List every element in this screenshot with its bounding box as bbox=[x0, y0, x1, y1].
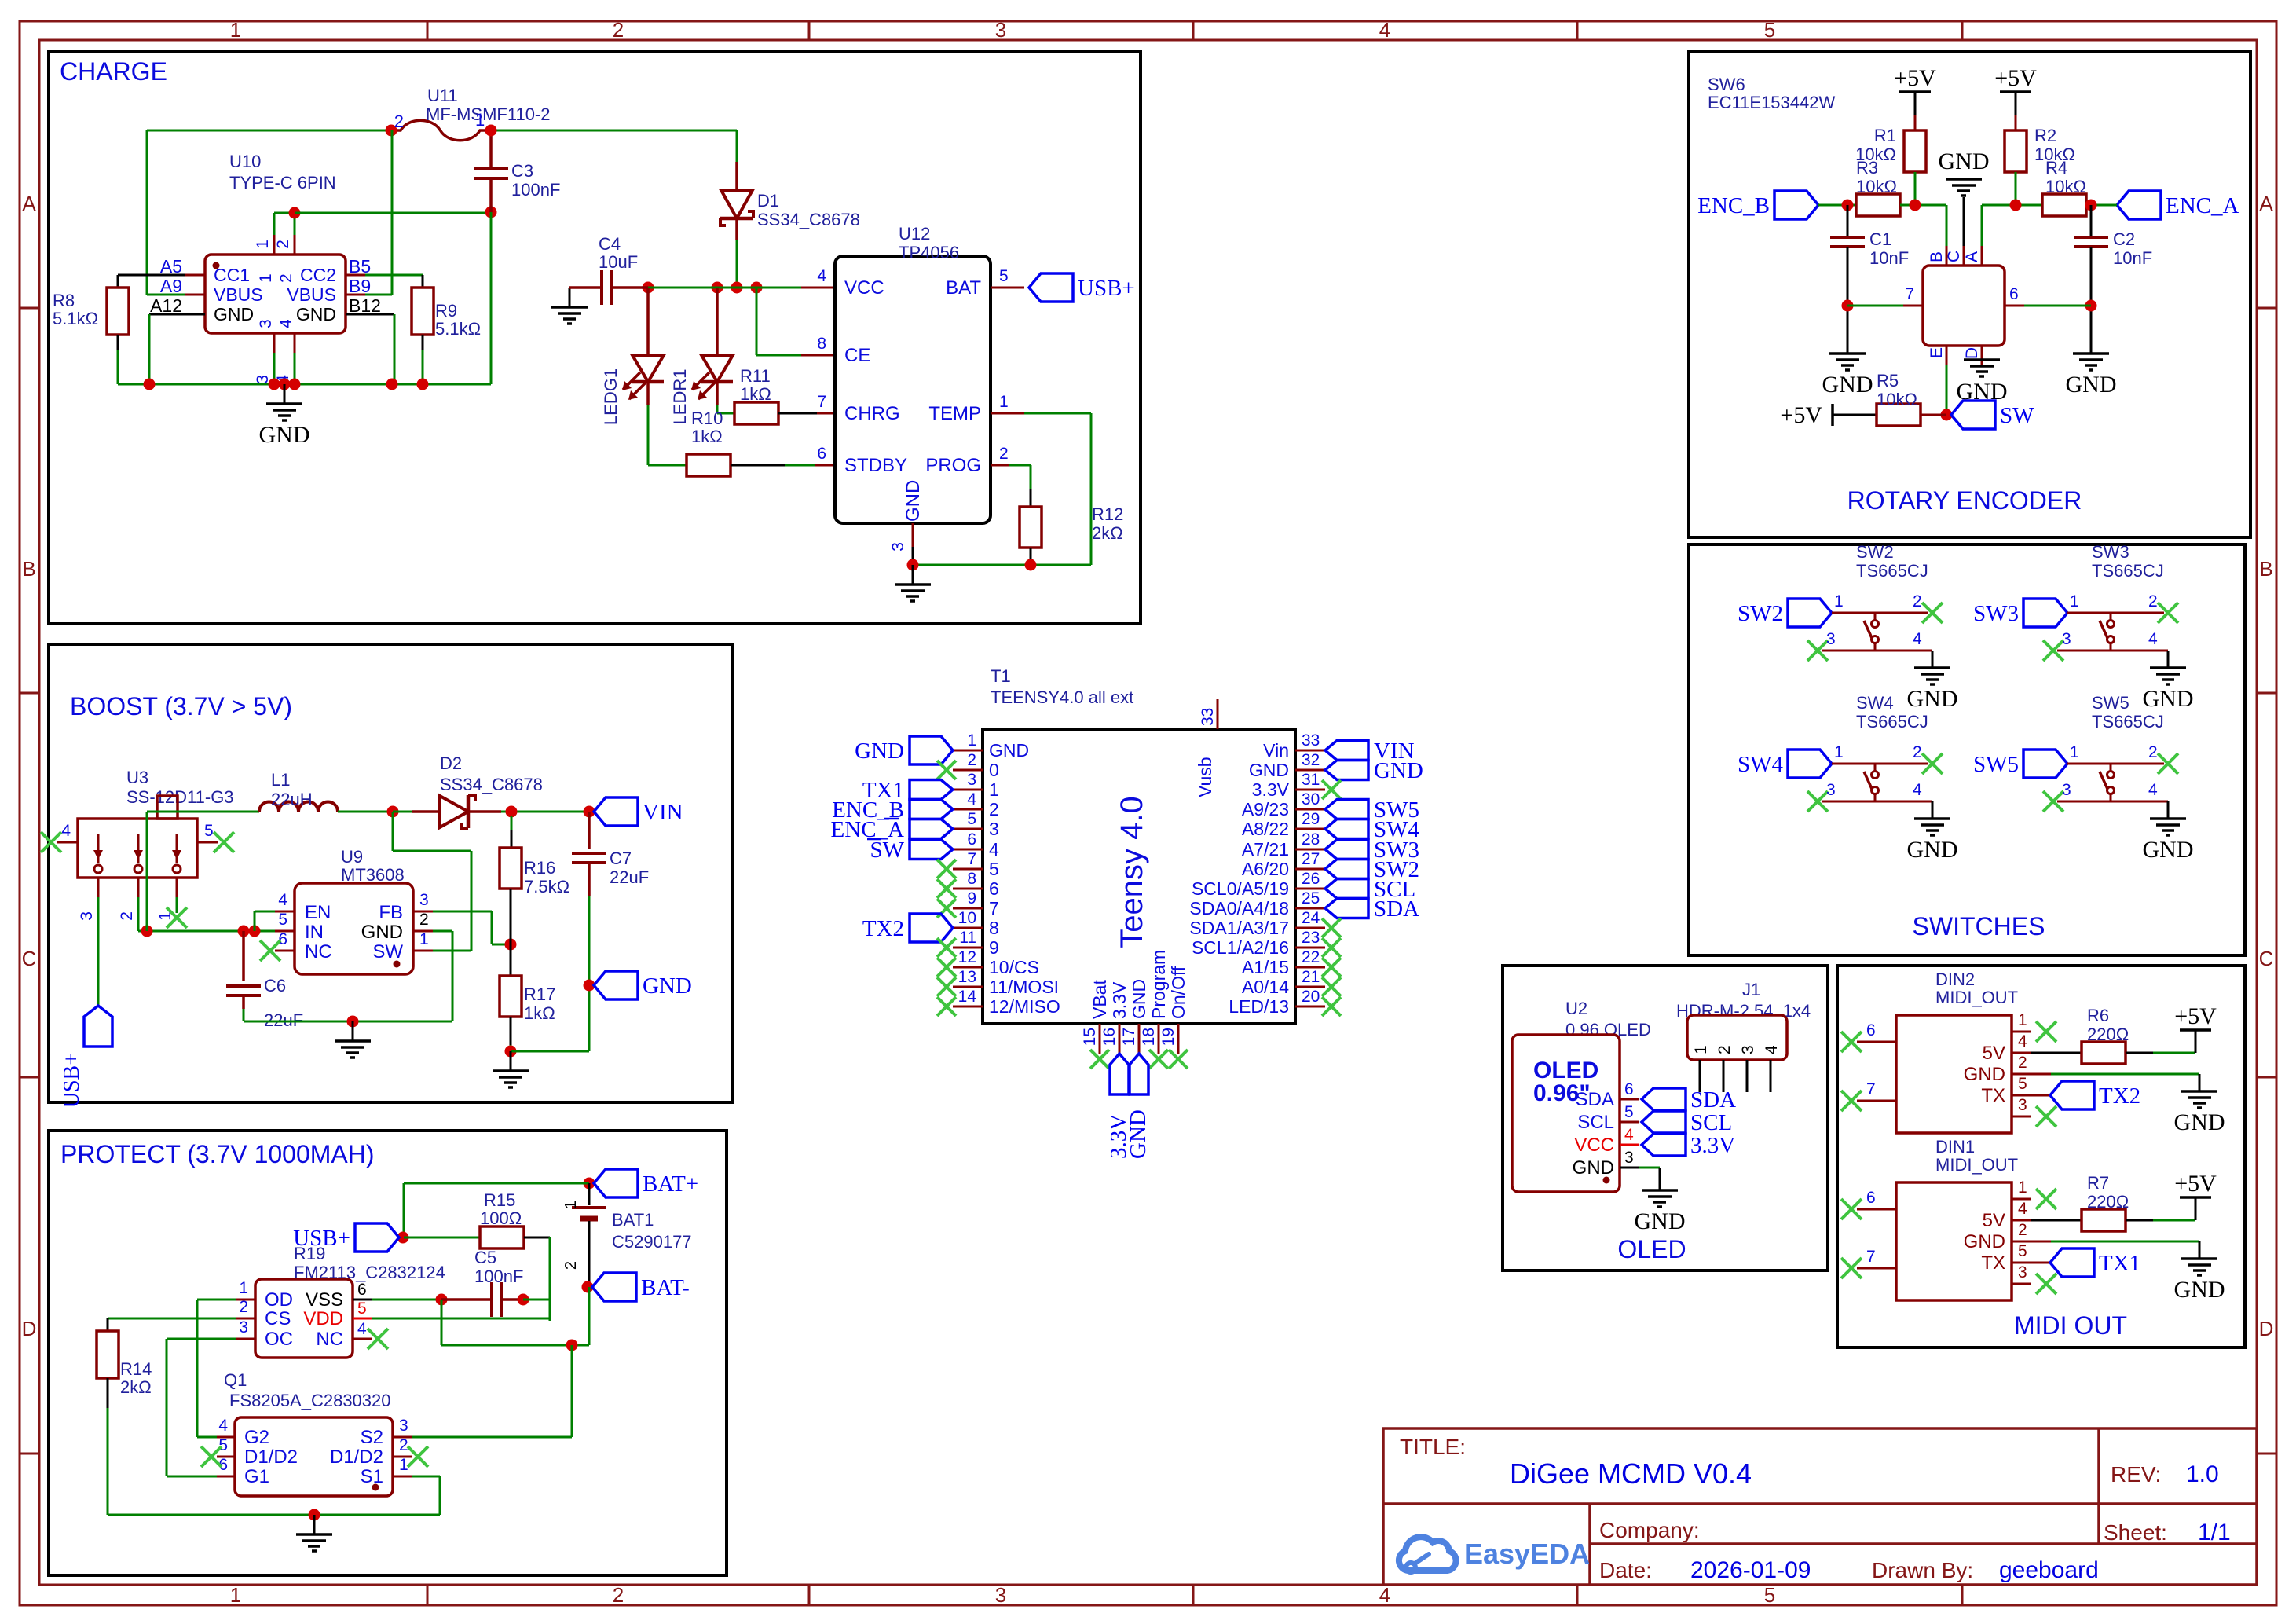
svg-text:SW4: SW4 bbox=[1856, 693, 1894, 713]
svg-text:Drawn By:: Drawn By: bbox=[1872, 1558, 1973, 1582]
svg-text:CHRG: CHRG bbox=[844, 403, 900, 424]
svg-text:SDA: SDA bbox=[1690, 1087, 1736, 1113]
svg-text:SW: SW bbox=[870, 838, 905, 863]
svg-text:VBat: VBat bbox=[1089, 980, 1110, 1019]
svg-text:3: 3 bbox=[1826, 630, 1836, 648]
svg-text:USB+: USB+ bbox=[1078, 276, 1135, 301]
svg-text:5V: 5V bbox=[1983, 1043, 2005, 1064]
svg-text:EC11E153442W: EC11E153442W bbox=[1708, 93, 1835, 112]
svg-text:A5: A5 bbox=[160, 256, 182, 277]
svg-text:10: 10 bbox=[958, 909, 976, 927]
svg-text:5: 5 bbox=[2018, 1075, 2027, 1093]
svg-text:SS34_C8678: SS34_C8678 bbox=[757, 210, 860, 229]
svg-text:GND: GND bbox=[1129, 979, 1149, 1019]
svg-text:C4: C4 bbox=[599, 234, 621, 254]
svg-text:15: 15 bbox=[1081, 1028, 1099, 1046]
svg-text:3: 3 bbox=[995, 18, 1006, 42]
svg-text:MIDI_OUT: MIDI_OUT bbox=[1935, 1155, 2018, 1175]
svg-text:SW3: SW3 bbox=[1973, 601, 2019, 626]
svg-text:1kΩ: 1kΩ bbox=[691, 427, 723, 446]
svg-text:5: 5 bbox=[278, 911, 287, 929]
svg-text:2: 2 bbox=[118, 911, 136, 921]
svg-text:22uH: 22uH bbox=[271, 790, 313, 809]
svg-text:C: C bbox=[2259, 947, 2274, 970]
svg-text:3: 3 bbox=[1826, 781, 1836, 799]
svg-text:220Ω: 220Ω bbox=[2087, 1025, 2129, 1044]
svg-text:MIDI OUT: MIDI OUT bbox=[2014, 1311, 2127, 1340]
svg-text:GND: GND bbox=[1374, 758, 1423, 783]
svg-text:B12: B12 bbox=[349, 295, 381, 316]
svg-text:2: 2 bbox=[1716, 1045, 1734, 1054]
svg-text:1: 1 bbox=[230, 1583, 241, 1607]
svg-text:FB: FB bbox=[379, 902, 403, 923]
svg-text:B9: B9 bbox=[349, 276, 371, 296]
svg-text:GND: GND bbox=[259, 422, 310, 448]
svg-text:1: 1 bbox=[989, 779, 999, 800]
svg-text:SDA: SDA bbox=[1374, 896, 1419, 922]
svg-text:OD: OD bbox=[265, 1289, 293, 1311]
svg-text:TX: TX bbox=[1981, 1252, 2005, 1274]
svg-text:R16: R16 bbox=[524, 858, 555, 878]
svg-text:A12: A12 bbox=[150, 295, 182, 316]
svg-text:10kΩ: 10kΩ bbox=[1856, 177, 1897, 196]
svg-text:8: 8 bbox=[989, 918, 999, 938]
svg-text:VDD: VDD bbox=[303, 1308, 343, 1329]
svg-text:ROTARY ENCODER: ROTARY ENCODER bbox=[1847, 486, 2082, 515]
svg-text:3.3V: 3.3V bbox=[1109, 981, 1130, 1019]
svg-text:4: 4 bbox=[1763, 1045, 1781, 1054]
svg-text:1: 1 bbox=[1834, 592, 1844, 610]
svg-text:C: C bbox=[22, 947, 37, 970]
svg-text:25: 25 bbox=[1302, 889, 1320, 907]
svg-text:R6: R6 bbox=[2087, 1006, 2109, 1025]
svg-text:Sheet:: Sheet: bbox=[2104, 1520, 2167, 1545]
svg-text:3: 3 bbox=[78, 911, 96, 921]
svg-text:R8: R8 bbox=[53, 291, 75, 310]
svg-text:VCC: VCC bbox=[844, 277, 884, 299]
svg-text:11: 11 bbox=[959, 929, 976, 947]
svg-text:A: A bbox=[1963, 251, 1981, 262]
svg-text:SDA1/A3/17: SDA1/A3/17 bbox=[1189, 918, 1289, 938]
svg-text:R3: R3 bbox=[1856, 158, 1878, 178]
svg-text:2: 2 bbox=[562, 1261, 580, 1270]
svg-text:100nF: 100nF bbox=[474, 1267, 523, 1286]
svg-text:Vin: Vin bbox=[1263, 740, 1289, 761]
svg-text:B5: B5 bbox=[349, 256, 371, 277]
svg-text:C6: C6 bbox=[264, 976, 286, 995]
svg-text:TX: TX bbox=[1981, 1085, 2005, 1106]
svg-text:TX1: TX1 bbox=[2099, 1251, 2140, 1276]
svg-text:22uF: 22uF bbox=[610, 867, 649, 887]
svg-text:C2: C2 bbox=[2113, 229, 2135, 249]
svg-text:TYPE-C 6PIN: TYPE-C 6PIN bbox=[229, 173, 336, 192]
svg-text:TS665CJ: TS665CJ bbox=[1856, 561, 1928, 581]
svg-text:FS8205A_C2830320: FS8205A_C2830320 bbox=[229, 1391, 391, 1410]
svg-text:TS665CJ: TS665CJ bbox=[2092, 712, 2164, 731]
svg-text:6: 6 bbox=[2009, 285, 2019, 303]
svg-text:5: 5 bbox=[999, 267, 1009, 285]
svg-text:4: 4 bbox=[277, 319, 295, 328]
svg-text:Q1: Q1 bbox=[224, 1370, 247, 1390]
svg-text:33: 33 bbox=[1302, 731, 1320, 750]
svg-text:2: 2 bbox=[999, 445, 1009, 463]
svg-text:CC2: CC2 bbox=[300, 265, 336, 285]
svg-text:TX2: TX2 bbox=[2099, 1083, 2140, 1109]
svg-text:2: 2 bbox=[419, 911, 429, 929]
svg-text:2: 2 bbox=[2018, 1054, 2027, 1072]
svg-text:SS34_C8678: SS34_C8678 bbox=[440, 775, 543, 794]
svg-text:3: 3 bbox=[2062, 630, 2071, 648]
svg-text:5: 5 bbox=[967, 810, 976, 828]
svg-text:100Ω: 100Ω bbox=[480, 1208, 522, 1228]
svg-text:A6/20: A6/20 bbox=[1242, 859, 1289, 879]
svg-text:2: 2 bbox=[989, 799, 999, 819]
svg-text:VBUS: VBUS bbox=[287, 284, 336, 305]
svg-text:GND: GND bbox=[643, 973, 692, 999]
svg-text:1: 1 bbox=[475, 110, 485, 130]
svg-text:A1/15: A1/15 bbox=[1242, 957, 1289, 977]
svg-text:GND: GND bbox=[2174, 1109, 2225, 1135]
svg-text:IN: IN bbox=[305, 922, 324, 943]
svg-text:C5290177: C5290177 bbox=[612, 1232, 692, 1252]
svg-text:GND: GND bbox=[1939, 148, 1990, 174]
svg-text:R2: R2 bbox=[2034, 126, 2056, 145]
svg-text:BAT: BAT bbox=[946, 277, 981, 299]
svg-text:D: D bbox=[2259, 1317, 2274, 1340]
svg-text:SCL: SCL bbox=[1577, 1112, 1614, 1133]
svg-text:D1/D2: D1/D2 bbox=[244, 1446, 298, 1468]
svg-text:2: 2 bbox=[613, 1583, 624, 1607]
svg-text:SCL: SCL bbox=[1690, 1110, 1732, 1135]
svg-text:4: 4 bbox=[357, 1320, 367, 1338]
svg-text:32: 32 bbox=[1302, 751, 1320, 769]
svg-text:4: 4 bbox=[2148, 630, 2158, 648]
svg-text:STDBY: STDBY bbox=[844, 455, 907, 476]
svg-text:R5: R5 bbox=[1877, 371, 1899, 390]
svg-text:Date:: Date: bbox=[1599, 1558, 1652, 1582]
svg-text:3: 3 bbox=[239, 1318, 248, 1336]
svg-text:20: 20 bbox=[1302, 988, 1320, 1006]
svg-text:21: 21 bbox=[1302, 968, 1320, 986]
svg-text:TX2: TX2 bbox=[862, 916, 904, 941]
svg-text:A9: A9 bbox=[160, 276, 182, 296]
svg-text:3: 3 bbox=[2062, 781, 2071, 799]
svg-text:1: 1 bbox=[2018, 1011, 2027, 1029]
svg-text:BOOST (3.7V > 5V): BOOST (3.7V > 5V) bbox=[70, 692, 292, 720]
svg-text:TS665CJ: TS665CJ bbox=[2092, 561, 2164, 581]
svg-text:GND: GND bbox=[1964, 1064, 2005, 1085]
svg-text:2: 2 bbox=[274, 240, 292, 249]
svg-text:1: 1 bbox=[239, 1279, 248, 1297]
svg-text:2: 2 bbox=[2148, 592, 2158, 610]
svg-text:ENC_B: ENC_B bbox=[1697, 193, 1770, 218]
svg-text:5: 5 bbox=[357, 1300, 367, 1318]
svg-text:D1: D1 bbox=[757, 191, 779, 211]
svg-text:U10: U10 bbox=[229, 152, 261, 171]
svg-text:EN: EN bbox=[305, 902, 331, 923]
svg-text:6: 6 bbox=[817, 445, 826, 463]
svg-text:VIN: VIN bbox=[643, 800, 683, 825]
svg-text:16: 16 bbox=[1100, 1028, 1119, 1046]
svg-text:+5V: +5V bbox=[1894, 65, 1936, 91]
svg-text:4: 4 bbox=[1379, 1583, 1390, 1607]
svg-text:31: 31 bbox=[1302, 771, 1320, 789]
svg-text:1: 1 bbox=[562, 1201, 580, 1209]
svg-text:6: 6 bbox=[1866, 1021, 1876, 1039]
svg-text:27: 27 bbox=[1302, 850, 1320, 868]
svg-text:5: 5 bbox=[2018, 1242, 2027, 1260]
svg-text:1: 1 bbox=[1834, 743, 1844, 761]
svg-text:+5V: +5V bbox=[1780, 402, 1822, 428]
svg-text:SWITCHES: SWITCHES bbox=[1913, 912, 2045, 940]
svg-text:A8/22: A8/22 bbox=[1242, 819, 1289, 839]
svg-text:4: 4 bbox=[2018, 1032, 2027, 1050]
svg-text:4: 4 bbox=[61, 822, 71, 840]
svg-text:30: 30 bbox=[1302, 790, 1320, 808]
svg-text:OLED: OLED bbox=[1617, 1235, 1686, 1263]
svg-text:9: 9 bbox=[989, 937, 999, 958]
svg-text:3.3V: 3.3V bbox=[1252, 779, 1290, 800]
svg-text:A0/14: A0/14 bbox=[1242, 977, 1289, 997]
svg-text:2: 2 bbox=[613, 18, 624, 42]
svg-text:LEDR1: LEDR1 bbox=[670, 369, 690, 425]
svg-text:1: 1 bbox=[967, 731, 976, 750]
svg-text:2: 2 bbox=[2018, 1221, 2027, 1239]
svg-text:1: 1 bbox=[419, 930, 429, 948]
svg-text:GND: GND bbox=[1907, 686, 1958, 712]
svg-text:5: 5 bbox=[218, 1436, 228, 1454]
svg-text:1: 1 bbox=[399, 1456, 408, 1474]
svg-text:R11: R11 bbox=[740, 366, 771, 386]
svg-text:5: 5 bbox=[1764, 1583, 1775, 1607]
svg-text:ENC_A: ENC_A bbox=[2166, 193, 2239, 218]
svg-text:SCL0/A5/19: SCL0/A5/19 bbox=[1192, 878, 1289, 899]
svg-text:11/MOSI: 11/MOSI bbox=[989, 977, 1059, 997]
svg-text:L1: L1 bbox=[271, 770, 290, 790]
svg-text:SW3: SW3 bbox=[2092, 542, 2129, 562]
svg-text:5.1kΩ: 5.1kΩ bbox=[53, 309, 98, 328]
svg-text:VCC: VCC bbox=[1574, 1135, 1614, 1156]
svg-text:0: 0 bbox=[989, 760, 999, 780]
svg-text:4: 4 bbox=[967, 790, 976, 808]
svg-text:7: 7 bbox=[1866, 1248, 1876, 1266]
svg-text:4: 4 bbox=[2148, 781, 2158, 799]
svg-text:GND: GND bbox=[1907, 837, 1958, 863]
svg-text:U9: U9 bbox=[341, 847, 363, 867]
svg-text:3: 3 bbox=[889, 542, 907, 552]
svg-text:4: 4 bbox=[1624, 1126, 1634, 1144]
svg-text:9: 9 bbox=[967, 889, 976, 907]
svg-text:4: 4 bbox=[2018, 1200, 2027, 1218]
svg-text:4: 4 bbox=[218, 1417, 228, 1435]
svg-text:7: 7 bbox=[989, 898, 999, 918]
svg-text:2: 2 bbox=[399, 1436, 408, 1454]
svg-text:10kΩ: 10kΩ bbox=[1877, 390, 1917, 409]
svg-text:10/CS: 10/CS bbox=[989, 957, 1039, 977]
svg-text:TEMP: TEMP bbox=[928, 403, 981, 424]
svg-text:BAT-: BAT- bbox=[641, 1275, 690, 1300]
svg-text:GND: GND bbox=[1573, 1157, 1614, 1179]
svg-text:29: 29 bbox=[1302, 810, 1320, 828]
svg-text:SDA: SDA bbox=[1576, 1089, 1614, 1110]
svg-text:S2: S2 bbox=[361, 1427, 383, 1448]
svg-text:MT3608: MT3608 bbox=[341, 865, 405, 885]
svg-text:1kΩ: 1kΩ bbox=[524, 1003, 555, 1023]
svg-text:23: 23 bbox=[1302, 929, 1320, 947]
svg-text:R19: R19 bbox=[294, 1244, 325, 1263]
svg-text:GND: GND bbox=[1249, 760, 1289, 780]
svg-text:1: 1 bbox=[999, 393, 1009, 411]
svg-text:U2: U2 bbox=[1565, 999, 1587, 1018]
svg-text:Teensy 4.0: Teensy 4.0 bbox=[1115, 796, 1149, 948]
svg-text:5: 5 bbox=[989, 859, 999, 879]
svg-text:C1: C1 bbox=[1869, 229, 1891, 249]
svg-text:GND: GND bbox=[1964, 1231, 2005, 1252]
svg-text:REV:: REV: bbox=[2111, 1462, 2161, 1487]
svg-text:1.0: 1.0 bbox=[2186, 1461, 2219, 1487]
svg-text:DiGee MCMD V0.4: DiGee MCMD V0.4 bbox=[1510, 1457, 1752, 1490]
svg-text:GND: GND bbox=[214, 304, 254, 324]
svg-text:GND: GND bbox=[2066, 372, 2117, 398]
svg-text:10nF: 10nF bbox=[1869, 248, 1909, 268]
svg-text:A: A bbox=[2259, 192, 2273, 215]
svg-text:TP4056: TP4056 bbox=[899, 243, 959, 262]
svg-text:D1/D2: D1/D2 bbox=[330, 1446, 383, 1468]
svg-text:2: 2 bbox=[277, 273, 295, 283]
svg-text:28: 28 bbox=[1302, 830, 1320, 849]
svg-text:1: 1 bbox=[254, 240, 272, 249]
svg-text:GND: GND bbox=[1822, 372, 1873, 398]
svg-text:6: 6 bbox=[357, 1281, 367, 1299]
svg-text:NC: NC bbox=[305, 941, 332, 962]
svg-text:10nF: 10nF bbox=[2113, 248, 2152, 268]
svg-text:T1: T1 bbox=[991, 666, 1011, 686]
svg-text:4: 4 bbox=[278, 891, 287, 909]
svg-text:TITLE:: TITLE: bbox=[1400, 1435, 1466, 1459]
svg-text:2: 2 bbox=[967, 751, 976, 769]
svg-text:D2: D2 bbox=[440, 753, 462, 773]
svg-text:SW2: SW2 bbox=[1738, 601, 1783, 626]
svg-text:GND: GND bbox=[296, 304, 336, 324]
svg-text:4: 4 bbox=[1913, 630, 1922, 648]
svg-text:SS-12D11-G3: SS-12D11-G3 bbox=[126, 787, 234, 807]
svg-text:R7: R7 bbox=[2087, 1173, 2109, 1193]
svg-text:A: A bbox=[22, 192, 36, 215]
svg-text:VSS: VSS bbox=[306, 1289, 343, 1311]
svg-text:SW6: SW6 bbox=[1708, 75, 1745, 94]
svg-text:SW4: SW4 bbox=[1738, 752, 1784, 777]
svg-text:B: B bbox=[1928, 251, 1946, 262]
svg-text:5: 5 bbox=[1764, 18, 1775, 42]
svg-text:26: 26 bbox=[1302, 870, 1320, 888]
svg-text:2: 2 bbox=[2148, 743, 2158, 761]
svg-text:CS: CS bbox=[265, 1308, 291, 1329]
svg-text:4: 4 bbox=[817, 267, 826, 285]
svg-text:6: 6 bbox=[1624, 1080, 1634, 1098]
svg-text:OC: OC bbox=[265, 1329, 293, 1350]
svg-text:3: 3 bbox=[419, 891, 429, 909]
svg-text:USB+: USB+ bbox=[60, 1053, 84, 1108]
svg-text:10uF: 10uF bbox=[599, 252, 638, 272]
svg-text:SW2: SW2 bbox=[1856, 542, 1894, 562]
svg-text:SW: SW bbox=[2000, 403, 2034, 428]
svg-text:BAT+: BAT+ bbox=[643, 1171, 698, 1197]
svg-text:E: E bbox=[1928, 347, 1946, 358]
svg-text:CE: CE bbox=[844, 345, 870, 366]
svg-text:C: C bbox=[1945, 251, 1963, 262]
svg-text:1: 1 bbox=[1692, 1045, 1710, 1054]
svg-text:S1: S1 bbox=[361, 1466, 383, 1487]
svg-text:R1: R1 bbox=[1874, 126, 1896, 145]
svg-text:LED/13: LED/13 bbox=[1229, 996, 1289, 1017]
svg-text:PROG: PROG bbox=[925, 455, 981, 476]
svg-text:17: 17 bbox=[1120, 1028, 1138, 1046]
svg-text:1: 1 bbox=[2070, 592, 2079, 610]
svg-text:12/MISO: 12/MISO bbox=[989, 996, 1060, 1017]
svg-text:MIDI_OUT: MIDI_OUT bbox=[1935, 988, 2018, 1007]
svg-text:5: 5 bbox=[1624, 1103, 1634, 1121]
svg-text:3: 3 bbox=[1624, 1149, 1634, 1167]
svg-text:1: 1 bbox=[2070, 743, 2079, 761]
svg-text:R17: R17 bbox=[524, 984, 555, 1004]
svg-text:EasyEDA: EasyEDA bbox=[1464, 1538, 1590, 1570]
svg-text:TS665CJ: TS665CJ bbox=[1856, 712, 1928, 731]
svg-text:A7/21: A7/21 bbox=[1242, 839, 1289, 860]
svg-text:3: 3 bbox=[2018, 1096, 2027, 1114]
svg-text:3: 3 bbox=[995, 1583, 1006, 1607]
svg-text:2kΩ: 2kΩ bbox=[1092, 523, 1123, 543]
svg-text:GND: GND bbox=[1635, 1208, 1686, 1234]
svg-text:13: 13 bbox=[958, 968, 976, 986]
svg-text:12: 12 bbox=[958, 948, 976, 966]
svg-text:GND: GND bbox=[855, 739, 904, 764]
svg-text:CHARGE: CHARGE bbox=[60, 57, 167, 86]
svg-text:U11: U11 bbox=[427, 86, 458, 105]
svg-text:On/Off: On/Off bbox=[1168, 966, 1188, 1019]
svg-text:2: 2 bbox=[1913, 743, 1922, 761]
svg-text:GND: GND bbox=[2143, 686, 2194, 712]
svg-text:DIN1: DIN1 bbox=[1935, 1137, 1975, 1157]
svg-text:U3: U3 bbox=[126, 768, 148, 787]
svg-text:+5V: +5V bbox=[2174, 1003, 2217, 1029]
svg-text:B: B bbox=[22, 557, 35, 581]
svg-text:18: 18 bbox=[1140, 1028, 1158, 1046]
svg-text:B: B bbox=[2259, 557, 2272, 581]
svg-text:1/1: 1/1 bbox=[2198, 1520, 2231, 1545]
svg-text:geeboard: geeboard bbox=[1999, 1557, 2099, 1583]
svg-text:19: 19 bbox=[1159, 1028, 1177, 1046]
svg-text:R14: R14 bbox=[120, 1359, 152, 1379]
svg-text:22: 22 bbox=[1302, 948, 1320, 966]
svg-text:3: 3 bbox=[967, 771, 976, 789]
svg-text:5.1kΩ: 5.1kΩ bbox=[435, 319, 481, 339]
svg-text:3: 3 bbox=[1739, 1045, 1757, 1054]
svg-text:R10: R10 bbox=[691, 409, 723, 428]
svg-text:D: D bbox=[22, 1317, 37, 1340]
svg-text:2026-01-09: 2026-01-09 bbox=[1690, 1557, 1811, 1583]
svg-text:6: 6 bbox=[1866, 1189, 1876, 1207]
svg-text:GND: GND bbox=[2174, 1277, 2225, 1303]
svg-text:C3: C3 bbox=[511, 161, 533, 181]
svg-text:GND: GND bbox=[361, 922, 403, 943]
svg-text:R15: R15 bbox=[484, 1190, 515, 1210]
svg-text:1: 1 bbox=[2018, 1179, 2027, 1197]
svg-text:10kΩ: 10kΩ bbox=[2045, 177, 2086, 196]
svg-text:DIN2: DIN2 bbox=[1935, 970, 1975, 989]
svg-text:7.5kΩ: 7.5kΩ bbox=[524, 877, 569, 896]
svg-text:A9/23: A9/23 bbox=[1242, 799, 1289, 819]
svg-text:GND: GND bbox=[989, 740, 1029, 761]
